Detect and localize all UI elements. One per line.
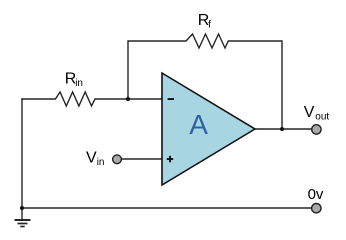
svg-text:V: V	[304, 104, 315, 121]
svg-text:out: out	[315, 111, 329, 122]
svg-text:in: in	[97, 157, 105, 168]
svg-text:f: f	[208, 20, 211, 31]
svg-text:in: in	[75, 78, 83, 89]
svg-text:A: A	[189, 109, 208, 140]
svg-text:0v: 0v	[308, 186, 324, 203]
svg-text:V: V	[86, 150, 97, 167]
